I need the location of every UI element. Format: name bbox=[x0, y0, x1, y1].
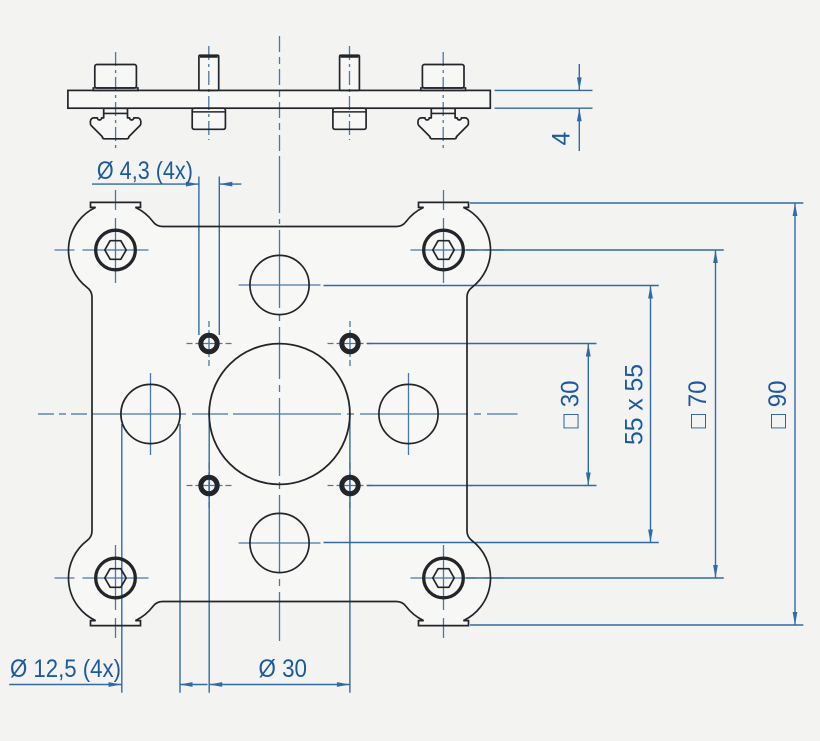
svg-text:□ 90: □ 90 bbox=[764, 381, 792, 429]
svg-text:Ø 4,3 (4x): Ø 4,3 (4x) bbox=[97, 157, 193, 185]
svg-text:55 x 55: 55 x 55 bbox=[621, 364, 649, 445]
svg-text:4: 4 bbox=[548, 131, 576, 145]
svg-text:□ 70: □ 70 bbox=[684, 381, 712, 429]
svg-text:Ø 30: Ø 30 bbox=[259, 655, 308, 683]
svg-text:□ 30: □ 30 bbox=[556, 381, 584, 429]
svg-text:Ø 12,5 (4x): Ø 12,5 (4x) bbox=[10, 655, 121, 683]
